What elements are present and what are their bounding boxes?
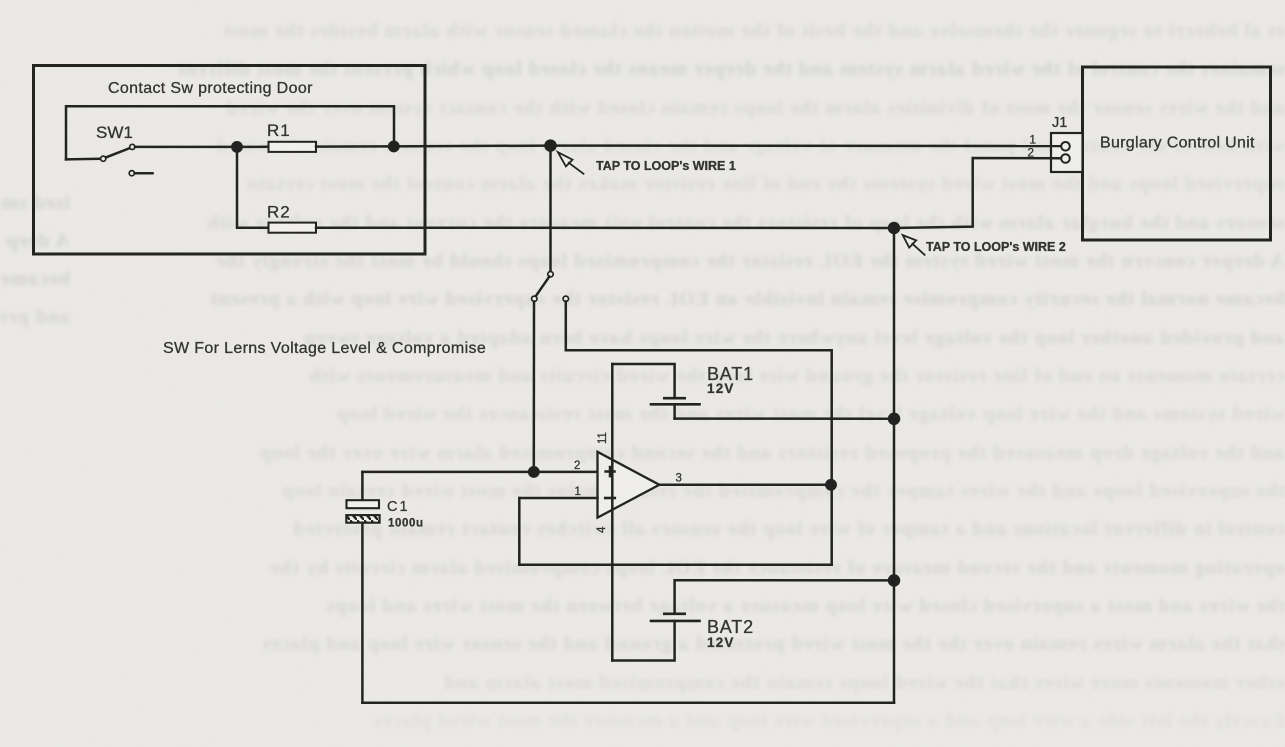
switch SW1 throw circle <box>130 144 135 149</box>
wire BAT1 to node E <box>675 417 894 420</box>
J1 pin 2 circle <box>1061 154 1070 163</box>
node B junction dot <box>389 142 398 151</box>
wire tap1 to J1 pin 1 <box>551 144 1061 147</box>
battery BAT1 short plate <box>664 397 684 400</box>
J1 pin 1 circle <box>1061 142 1070 151</box>
right vertical wire tap2 to bottom <box>893 228 896 703</box>
wire node B to tap1 <box>394 144 551 147</box>
wire node F to BAT2 <box>675 580 894 614</box>
node D junction dot <box>826 480 835 489</box>
battery BAT1 bottom lead <box>673 404 676 418</box>
wire node C to op-amp pin 2 <box>534 471 598 474</box>
box: Contact Sw protecting Door <box>34 66 426 255</box>
op-amp minus sign <box>605 497 615 500</box>
wire left throw down to node C <box>533 302 536 472</box>
wire tap1 down to mid switch <box>549 146 552 272</box>
cursor arrow 1 <box>558 152 584 174</box>
battery BAT2 short plate <box>664 612 684 615</box>
resistor R1 <box>269 142 317 152</box>
mid switch right throw circle <box>563 296 568 301</box>
wire node A to R1 <box>237 146 269 149</box>
node E junction dot <box>889 414 899 424</box>
battery BAT2 bottom lead <box>612 621 674 661</box>
mid switch blade <box>536 277 550 297</box>
cursor arrow 2 <box>903 235 925 255</box>
wire R1 to node B <box>316 145 394 148</box>
feedback wire pin1 to output branch <box>519 498 831 565</box>
wire C1 to node C <box>362 471 533 474</box>
op-amp pin 3 output wire <box>659 484 831 487</box>
wire SW1 to node A <box>135 146 237 149</box>
op-amp U1 triangle <box>598 452 660 518</box>
bleed-through background text <box>0 20 1285 46</box>
tap1 junction dot <box>546 141 556 151</box>
resistor R2 <box>269 223 317 233</box>
switch SW1 pole circle <box>101 156 106 161</box>
wire node A down to R2 <box>237 147 269 228</box>
tap2 junction dot <box>889 223 899 233</box>
bottom wire <box>362 702 894 705</box>
wire right throw down and right <box>566 302 832 565</box>
box: Burglary Control Unit <box>1083 67 1271 240</box>
capacitor C1 bottom plate (hatched) <box>346 515 379 523</box>
battery BAT1 long plate <box>651 403 700 406</box>
op-amp pin 1 wire <box>519 497 597 500</box>
switch SW1 lower throw circle <box>129 171 134 176</box>
node C junction dot <box>529 467 538 476</box>
capacitor C1 top lead <box>361 472 364 500</box>
op-amp power pins vertical (11 top / 4 bottom) <box>611 364 614 661</box>
connector J1 box <box>1051 133 1083 172</box>
mid switch top circle <box>548 272 553 277</box>
capacitor C1 top plate <box>347 500 380 508</box>
mid switch left throw circle <box>532 296 537 301</box>
switch SW1 blade <box>106 148 131 158</box>
wire pin 11 to BAT1 <box>612 364 674 398</box>
op-amp plus sign <box>606 467 615 476</box>
capacitor C1 bottom lead <box>361 523 364 703</box>
wire stub to SW1 <box>66 158 101 161</box>
node A junction dot <box>232 142 241 151</box>
wire tap2 to J1 pin 2 <box>894 158 1061 228</box>
wire R2 to tap2 <box>316 226 894 229</box>
wire inner loop top <box>66 106 394 159</box>
switch SW1 lower stub <box>135 172 153 175</box>
node F junction dot <box>889 575 899 585</box>
battery BAT2 long plate <box>651 620 700 623</box>
